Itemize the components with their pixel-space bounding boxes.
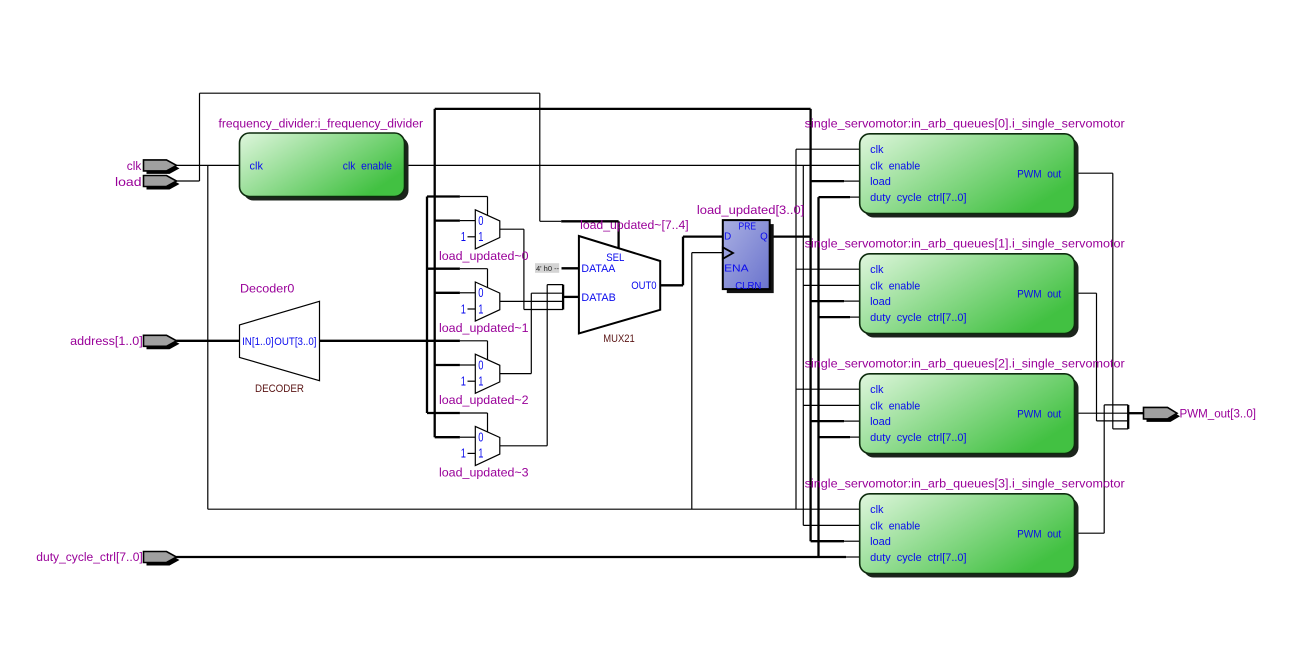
block frequency_divider:i_frequency_divider [244,137,409,201]
svg-text:1: 1 [461,375,466,389]
input pin clk [147,163,180,174]
svg-text:clk enable: clk enable [870,280,920,292]
svg-text:clk: clk [870,384,884,396]
wire constant 1 dash mux0 [468,236,476,238]
wire clk to servo2 [796,388,860,390]
wire clk_enable rail x=803 [802,165,804,525]
svg-text:load_updated~1: load_updated~1 [439,321,529,335]
wire load bit into servo0 [844,180,860,182]
svg-text:duty cycle ctrl[7..0]: duty cycle ctrl[7..0] [870,192,966,204]
svg-text:1: 1 [478,230,483,244]
wire load bit into servo3 [844,540,860,542]
wire mux0 output [500,228,524,230]
wire load_updated rail x=810.6 [809,109,811,541]
svg-text:0: 0 [478,286,483,300]
svg-text:0: 0 [478,214,483,228]
wire select bit3 thin [460,412,488,414]
wire servo3 PWM riser [1103,405,1105,533]
svg-text:single_servomotor:in_arb_queue: single_servomotor:in_arb_queues[0].i_sin… [805,117,1125,131]
wire constant 1 dash mux3 [468,452,476,454]
wire address bus pin to decoder [176,340,239,342]
wire clk to servo0 [796,148,860,150]
wire load riser at x=199.5 [199,93,201,181]
mux load_updated~0 [475,210,500,249]
wire mux2 output riser [530,293,532,373]
wire servo1 PWM out [1075,292,1097,294]
wire feedback bit2 bus stub [435,364,460,366]
wire Q output to load rail [770,235,811,237]
input pin address[1..0] [147,338,180,349]
svg-text:single_servomotor:in_arb_queue: single_servomotor:in_arb_queues[2].i_sin… [805,357,1125,371]
svg-text:clk enable: clk enable [870,400,920,412]
wire constant 1 dash mux1 [468,308,476,310]
svg-text:load_updated~3: load_updated~3 [439,465,529,479]
svg-text:1: 1 [478,302,483,316]
svg-text:1: 1 [461,302,466,316]
wire duty bus stub servo1 [819,316,851,318]
svg-text:load: load [870,296,891,308]
wire load drop at x=540 [539,93,541,221]
svg-text:1: 1 [461,447,466,461]
wire clk_enable frequency_divider out to servo0 [405,164,860,166]
wire OUT0 from MUX21 [660,284,683,286]
wire feedback bit0 bus stub [435,219,460,221]
bus join PWM_out (overlapping ripper rectangles) [1104,404,1128,406]
mux load_updated~3 [475,426,500,465]
wire mux1 output [500,300,563,302]
svg-text:address[1..0]: address[1..0] [70,334,143,348]
wire duty into servo0 [850,196,860,198]
svg-text:0: 0 [478,431,483,445]
svg-text:OUT0: OUT0 [631,280,656,292]
svg-text:frequency_divider:i_frequency_: frequency_divider:i_frequency_divider [219,117,424,131]
svg-text:PWM out: PWM out [1017,288,1061,300]
wire duty bus stub servo0 [819,196,851,198]
svg-text:load_updated~2: load_updated~2 [439,393,529,407]
svg-text:clk enable: clk enable [343,160,392,172]
wire select bit2 drop into mux2 [487,341,489,360]
svg-text:DATAA: DATAA [581,263,616,275]
svg-text:PWM_out[3..0]: PWM_out[3..0] [1180,406,1257,420]
constant 4'h0 [535,263,559,273]
svg-text:4' h0 --: 4' h0 -- [536,264,560,273]
svg-text:load_updated~[7..4]: load_updated~[7..4] [580,218,689,232]
svg-text:MUX21: MUX21 [603,333,635,345]
wire load bus stub to servo1 [811,300,844,302]
wire mux3 output [500,445,547,447]
wire select bit2 thin [460,340,488,342]
input pin duty_cycle_ctrl[7..0] [147,555,180,566]
wire feedback rail B x=434.7 [434,109,436,437]
wire servo1 PWM drop [1096,293,1098,421]
wire duty into servo3 [846,556,860,558]
decoder Decoder0 [240,301,320,380]
wire feedback bit3 into mux3 input 0 [460,436,475,438]
wire select bit1 thin [460,268,488,270]
wire load pin stub [176,180,199,182]
wire select bit3 bus stub [427,412,460,414]
wire feedback bit2 into mux2 input 0 [460,364,475,366]
wire mux2 output [500,373,532,375]
svg-text:PRE: PRE [739,221,757,232]
wire clk to servo1 [796,268,860,270]
block single_servomotor:in_arb_queues[0].i_single_servomotor [864,138,1079,218]
wire duty bus stub servo3 [819,556,847,558]
svg-text:duty_cycle_ctrl[7..0]: duty_cycle_ctrl[7..0] [36,550,143,564]
svg-text:CLRN: CLRN [735,281,761,292]
wire mux0 output drop [523,229,525,309]
svg-text:clk: clk [870,504,884,516]
wire clk_enable to servo3 [803,524,859,526]
block single_servomotor:in_arb_queues[1].i_single_servomotor [864,258,1079,338]
wire duty bus stub servo2 [819,436,851,438]
svg-text:IN[1..0]: IN[1..0] [242,336,274,348]
svg-text:duty cycle ctrl[7..0]: duty cycle ctrl[7..0] [870,552,966,564]
wire clk riser to flip-flop clock [691,253,693,510]
wire load bus stub to servo3 [811,540,844,542]
bus join DATAB (overlapping ripper rectangles) [547,284,563,286]
svg-text:clk enable: clk enable [870,160,920,172]
wire servo0 PWM drop [1112,173,1114,429]
wire select bit0 thin [460,196,488,198]
wire duty into servo1 [850,316,860,318]
wire clk bottom rail to servo3 clk [208,508,860,510]
svg-text:DECODER: DECODER [255,383,304,395]
svg-text:Q: Q [760,232,768,243]
svg-text:clk: clk [870,144,884,156]
wire select bit3 drop into mux3 [487,413,489,432]
wire load_updated top bus y=109 [435,108,811,110]
svg-text:0: 0 [478,358,483,372]
svg-text:OUT[3..0]: OUT[3..0] [274,336,316,348]
svg-text:single_servomotor:in_arb_queue: single_servomotor:in_arb_queues[3].i_sin… [805,477,1125,491]
svg-text:ENA: ENA [724,264,749,275]
wire servo3 PWM out [1075,532,1105,534]
wire load into MUX21 SEL [617,221,619,250]
wire clk vertical drop at x=208 [207,165,209,509]
wire feedback bit1 into mux1 input 0 [460,292,475,294]
wire load bit into servo2 [844,420,860,422]
svg-text:load_updated[3..0]: load_updated[3..0] [697,203,804,217]
wire feedback bit3 bus stub [435,436,460,438]
input pin load [147,179,180,190]
svg-text:load: load [870,176,891,188]
wire select bit1 bus stub [427,268,460,270]
wire mux3 output riser [546,285,548,446]
wire clk rail x=796 [795,149,797,509]
mux MUX21 load_updated~[7..4] [579,236,660,333]
svg-text:load: load [115,175,142,189]
block single_servomotor:in_arb_queues[2].i_single_servomotor [864,378,1079,458]
wire OUT0 riser [682,237,684,286]
svg-text:load: load [870,416,891,428]
mux load_updated~2 [475,354,500,393]
wire load bus stub to servo0 [811,180,844,182]
svg-text:duty cycle ctrl[7..0]: duty cycle ctrl[7..0] [870,312,966,324]
svg-text:PWM out: PWM out [1017,528,1061,540]
wire select bit0 drop into mux0 [487,197,489,216]
svg-text:1: 1 [461,230,466,244]
wire duty_cycle_ctrl pin bus [176,556,818,558]
svg-text:load: load [870,536,891,548]
wire servo2 PWM out [1075,412,1129,414]
wire constant 1 dash mux2 [468,380,476,382]
wire load toward MUX21 SEL [540,220,561,222]
wire load SEL bus stub [561,220,618,222]
wire select bit0 bus stub [427,195,460,197]
wire load top rail y=93 [200,92,540,94]
svg-text:1: 1 [478,375,483,389]
output pin PWM_out[3..0] [1147,410,1181,422]
wire select bit1 drop into mux1 [487,269,489,288]
mux load_updated~1 [475,282,500,321]
wire duty into servo2 [850,436,860,438]
wire PWM_out bus to output pin [1128,412,1143,414]
svg-text:clk: clk [250,160,264,172]
svg-text:single_servomotor:in_arb_queue: single_servomotor:in_arb_queues[1].i_sin… [805,237,1125,251]
wire clk_enable to servo2 [803,404,859,406]
svg-text:DATAB: DATAB [581,292,615,304]
svg-text:PWM out: PWM out [1017,168,1061,180]
wire select rail A x=427 [426,197,428,414]
wire servo0 PWM out [1075,172,1113,174]
wire load bit into servo1 [844,300,860,302]
svg-text:D: D [724,232,731,243]
wire clk pin to frequency_divider clk [176,164,239,166]
block single_servomotor:in_arb_queues[3].i_single_servomotor [864,498,1079,578]
svg-text:clk: clk [127,159,142,173]
svg-text:clk: clk [870,264,884,276]
svg-text:1: 1 [478,447,483,461]
wire decoder output bus [320,340,460,342]
wire DATAB bus into MUX21 [563,296,579,298]
wire 4'h0 constant into DATAA [562,267,579,269]
svg-text:load_updated~0: load_updated~0 [439,249,529,263]
wire duty rail x=818.5 [817,197,819,557]
svg-text:PWM out: PWM out [1017,408,1061,420]
svg-text:duty cycle ctrl[7..0]: duty cycle ctrl[7..0] [870,432,966,444]
wire feedback bit1 bus stub [435,292,460,294]
flip-flop load_updated[3..0] (DFF with ENA) [727,224,774,293]
wire OUT0 into flip-flop D [683,235,723,237]
wire load bus stub to servo2 [811,420,844,422]
wire feedback bit0 into mux0 input 0 [460,220,475,222]
wire clk into flip-flop clock triangle [692,252,723,254]
wire clk_enable to servo1 [803,284,859,286]
svg-text:Decoder0: Decoder0 [240,282,295,296]
svg-text:clk enable: clk enable [870,520,920,532]
